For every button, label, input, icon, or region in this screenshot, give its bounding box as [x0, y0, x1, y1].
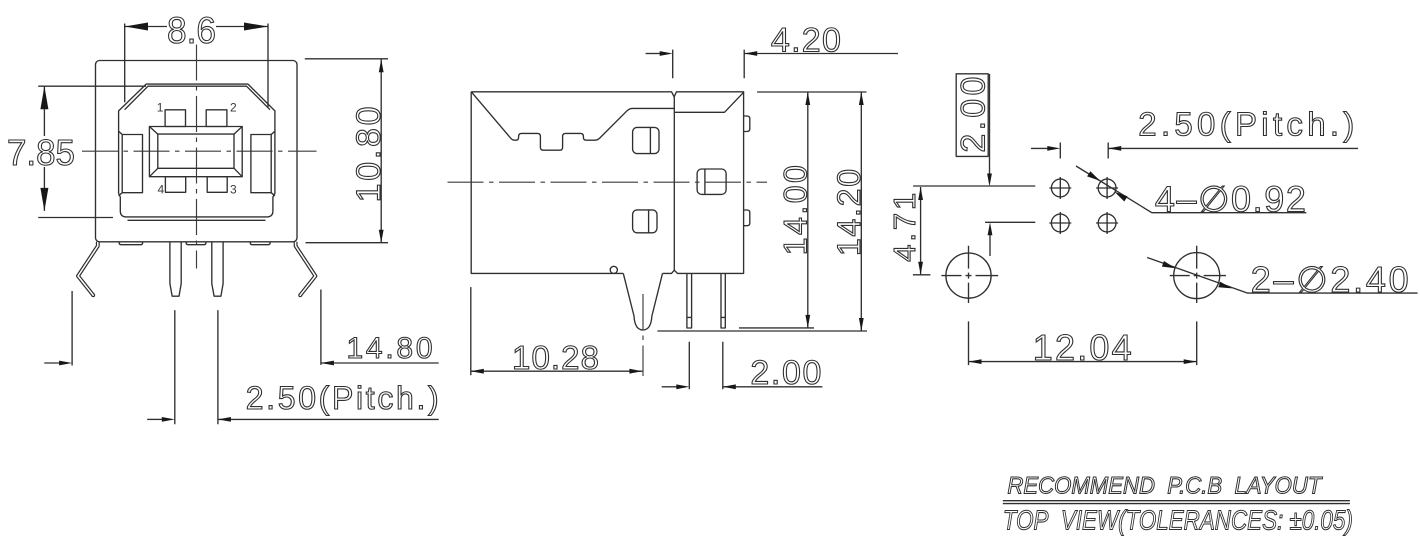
dim 8.6 line	[125, 26, 268, 28]
row2 ext line	[985, 221, 1035, 223]
svg-text:14.20: 14.20	[831, 169, 867, 256]
right slot	[251, 135, 271, 193]
dimple upper	[633, 127, 659, 153]
svg-text:2.50(Pitch.): 2.50(Pitch.)	[246, 380, 439, 416]
dim 4.20 arrow	[744, 51, 757, 56]
small circle on bottom edge	[610, 266, 617, 273]
dim 4.71 bottom ext	[913, 274, 931, 276]
svg-text:7.85: 7.85	[7, 132, 75, 173]
dim 14.80 left arrow	[44, 362, 61, 364]
dim 4.20 ext lines	[673, 50, 745, 79]
svg-text:2.50(Pitch.): 2.50(Pitch.)	[1138, 106, 1354, 143]
svg-text:12.04: 12.04	[1033, 327, 1132, 368]
dim 2.50 pitch ext lines	[175, 310, 218, 424]
svg-text:TOP VIEW(TOLERANCES: ±0.05): TOP VIEW(TOLERANCES: ±0.05)	[1003, 505, 1353, 536]
svg-text:4.20: 4.20	[771, 22, 841, 60]
dim 14.80 arrow	[321, 361, 334, 366]
left leg	[78, 242, 98, 295]
peg center line	[642, 294, 644, 376]
svg-text:1: 1	[157, 100, 164, 114]
dim 12.04 ext lines	[969, 321, 1197, 365]
dim 10.80 line	[380, 59, 382, 243]
svg-text:2.00: 2.00	[750, 354, 821, 392]
bottom tab left	[119, 242, 142, 245]
vertical center line	[196, 45, 198, 269]
PCB LAYOUT VIEW	[887, 74, 1418, 368]
dimple lower	[633, 210, 657, 233]
right edge bump upper	[744, 116, 750, 132]
svg-text:14.80: 14.80	[347, 332, 433, 365]
small hole C	[1051, 214, 1069, 232]
dim 14.20 line	[860, 92, 862, 331]
right leg	[296, 242, 316, 295]
dim 12.04 line	[969, 361, 1197, 363]
svg-text:4.71: 4.71	[887, 193, 922, 262]
horizontal center line	[82, 150, 317, 152]
contact square 4	[165, 177, 185, 193]
dim 2.50 pitch left arrow	[1031, 147, 1049, 149]
contact square 1	[165, 110, 185, 127]
pin 1 side	[687, 273, 692, 328]
dim 4.20 left arrow	[646, 53, 661, 55]
right edge bump lower	[744, 210, 750, 226]
pin right	[212, 242, 223, 296]
title underline double	[1003, 501, 1350, 504]
contact square 3	[207, 177, 227, 193]
dim 14.00/14.20 bottom ext	[657, 328, 867, 331]
dim 7.85 ext lines	[38, 86, 146, 217]
dim 7.85 arrows	[40, 86, 48, 211]
dim 2.50 pitch ext lines	[1060, 143, 1108, 159]
contact square 2	[206, 110, 227, 127]
dim 14.00/14.20 top ext	[757, 91, 866, 93]
tongue bevels	[149, 127, 242, 177]
svg-text:8.6: 8.6	[167, 10, 216, 51]
leader 4-o0.92	[1076, 166, 1306, 213]
dim 2.50 pitch arrow	[218, 417, 231, 422]
dim 8.6 arrows	[125, 23, 268, 31]
TITLE TEXT	[1003, 472, 1353, 535]
row1 ext line	[913, 185, 1035, 187]
SIDE VIEW	[448, 22, 899, 393]
main body outline	[471, 92, 743, 274]
leader 2-o2.40	[1147, 258, 1417, 294]
boxed dim 2.00	[956, 74, 988, 157]
tongue inner	[158, 134, 234, 168]
svg-text:RECOMMEND P.C.B LAYOUT: RECOMMEND P.C.B LAYOUT	[1007, 472, 1323, 499]
crown cutout	[472, 92, 675, 150]
shell outline	[119, 84, 275, 217]
dim 14.80 line	[321, 362, 439, 364]
horizontal center line	[448, 181, 768, 183]
housing outer square	[96, 61, 298, 242]
dim 14.00 line	[807, 92, 809, 328]
row2 up arrow	[989, 228, 991, 256]
dim 2.50 pitch left arrow	[147, 418, 163, 420]
right block inner line	[674, 92, 743, 112]
dim 10.28 ext line	[470, 287, 472, 375]
body junction vertical line	[673, 97, 675, 270]
tongue outer	[149, 127, 242, 177]
bottom tab right	[250, 242, 270, 245]
svg-text:2.00: 2.00	[954, 77, 992, 153]
dim 2.00 left arrow	[662, 386, 677, 388]
board lock peg	[623, 273, 662, 330]
small hole A	[1051, 179, 1069, 197]
dim 10.80 arrows	[379, 59, 384, 242]
pin left	[170, 242, 181, 296]
dim 10.80 ext lines	[305, 59, 388, 243]
dim 4.20 line	[744, 53, 898, 55]
svg-text:2–∅2.40: 2–∅2.40	[1251, 259, 1409, 300]
dim 8.6 ext lines	[125, 24, 268, 108]
boxed dim leader line	[989, 74, 991, 181]
small hole D	[1098, 214, 1116, 232]
svg-text:10.28: 10.28	[512, 339, 599, 376]
small hole B	[1098, 179, 1116, 197]
svg-text:4–∅0.92: 4–∅0.92	[1155, 179, 1306, 220]
dim 2.00 line	[723, 386, 823, 388]
big hole left	[946, 253, 991, 298]
FRONT VIEW	[7, 10, 439, 424]
bottom tab middle	[186, 242, 206, 245]
dim 14.80 right ext	[320, 290, 322, 365]
dim 2.00 ext lines	[689, 342, 723, 389]
left slot	[122, 135, 142, 193]
pin 2 side	[721, 273, 725, 328]
shell inner bottom edge	[128, 219, 266, 221]
big hole right	[1174, 253, 1220, 299]
svg-text:14.00: 14.00	[778, 165, 814, 255]
dim 14.80 left ext	[71, 291, 73, 366]
svg-text:2: 2	[230, 100, 237, 114]
shell inner top edge	[125, 86, 270, 110]
svg-text:10.80: 10.80	[350, 106, 388, 202]
dim 10.28 line	[471, 370, 643, 372]
dim 7.85 line	[43, 86, 45, 211]
dimple center (right block)	[697, 169, 726, 194]
dim 2.50 pitch line (underline)	[1108, 147, 1358, 149]
svg-text:3: 3	[230, 183, 237, 197]
svg-text:4: 4	[158, 183, 165, 197]
dim 4.71 line	[920, 187, 922, 275]
dim 2.50 pitch line	[218, 418, 439, 420]
